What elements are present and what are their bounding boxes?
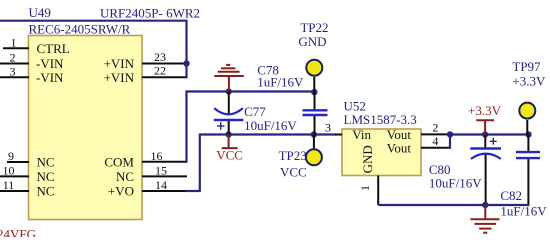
svg-text:1: 1 [11, 35, 17, 49]
svg-text:+VO: +VO [108, 184, 134, 199]
wire COM riser vertical [185, 91, 187, 163]
capacitor C82 leads [527, 135, 529, 152]
svg-text:URF2405P- 6WR2: URF2405P- 6WR2 [100, 6, 200, 21]
svg-text:GND: GND [360, 145, 375, 173]
svg-text:NC: NC [37, 169, 55, 184]
junction TP97 / C82 [525, 131, 531, 137]
svg-text:NC: NC [37, 184, 55, 199]
test point TP97 circle [519, 103, 535, 119]
svg-text:23: 23 [154, 50, 166, 64]
svg-text:-VIN: -VIN [36, 56, 64, 71]
svg-text:+3.3V: +3.3V [512, 74, 546, 89]
svg-text:REC6-2405SRW/R: REC6-2405SRW/R [29, 22, 131, 37]
svg-text:VCC: VCC [280, 165, 307, 180]
capacitor C77 straight plate [214, 119, 244, 121]
svg-text:C82: C82 [500, 188, 522, 203]
svg-text:Vin: Vin [352, 127, 371, 142]
svg-text:COM: COM [104, 154, 134, 169]
capacitor C82 bottom plate [516, 157, 540, 159]
svg-text:GND: GND [298, 34, 326, 49]
junction TP22 / C78 [311, 89, 317, 95]
wire +VO net vertical riser [199, 134, 201, 193]
U49 pin 22 line [142, 76, 187, 78]
junction C77 top [226, 88, 232, 94]
svg-text:15: 15 [155, 163, 167, 177]
junction U52 pin 2 [447, 131, 453, 137]
svg-text:LMS1587-3.3: LMS1587-3.3 [344, 112, 417, 127]
svg-text:+3.3V: +3.3V [468, 103, 502, 118]
capacitor C78 leads [314, 92, 316, 110]
svg-text:U49: U49 [29, 5, 51, 20]
wire GND bottom horizontal [378, 204, 529, 206]
U52 pin 2 line [421, 133, 450, 135]
U49 pin 14 line [142, 190, 187, 192]
wire +VO net bottom horizontal [186, 190, 201, 192]
svg-text:NC: NC [116, 169, 134, 184]
test point TP22 stub [313, 77, 315, 92]
capacitor C78 bottom plate [303, 114, 328, 116]
svg-text:VCC: VCC [216, 148, 243, 163]
capacitor C80 straight plate [470, 147, 501, 149]
svg-text:14: 14 [155, 178, 167, 192]
wire top +VIN net horizontal [0, 20, 188, 22]
U49 pin 16 line [142, 161, 187, 163]
wire pin4 to pin2 riser [449, 134, 451, 148]
U49 pin 1 line [3, 47, 29, 49]
ground symbol bottom right [470, 205, 499, 233]
U49 pin 10 line [0, 175, 29, 177]
wire +3.3V net horizontal [450, 133, 529, 135]
capacitor C80 plus sign [490, 138, 497, 145]
svg-text:2: 2 [432, 121, 438, 135]
test point TP22 circle [306, 60, 322, 76]
test point TP23 circle [306, 149, 322, 165]
svg-text:TP97: TP97 [512, 59, 541, 74]
svg-text:Vout: Vout [387, 140, 412, 155]
svg-text:11: 11 [3, 178, 15, 192]
test point TP97 stub [526, 120, 528, 135]
svg-text:22: 22 [154, 63, 166, 77]
capacitor C78 top plate [303, 109, 328, 111]
junction C77 bottom / VCC tap [225, 131, 231, 137]
svg-text:9: 9 [8, 149, 14, 163]
capacitor C77 leads [228, 92, 230, 115]
svg-text:10: 10 [3, 163, 15, 177]
svg-text:-VIN: -VIN [36, 70, 64, 85]
U52 pin 4 line [421, 147, 450, 149]
test point TP23 stub [313, 135, 315, 149]
svg-text:TP22: TP22 [300, 20, 328, 35]
U49 pin 2 line [0, 63, 29, 65]
svg-text:2: 2 [10, 51, 16, 65]
junction ground / C80 bottom [482, 202, 488, 208]
junction TP23 / C78 bottom [311, 131, 317, 137]
capacitor C80 leads [484, 135, 486, 149]
svg-text:C77: C77 [244, 104, 266, 119]
IC U49 body [29, 36, 143, 220]
svg-text:+VIN: +VIN [104, 56, 135, 71]
U49 pin 3 line [0, 76, 29, 78]
junction pin 23 [183, 60, 189, 66]
capacitor C77 curved plate [214, 108, 243, 114]
U49 pin 23 line [142, 63, 187, 65]
capacitor C77 plus sign [217, 122, 224, 129]
U49 pin 11 line [0, 190, 29, 192]
power symbol +3.3V bar [476, 120, 494, 134]
svg-text:24VFG: 24VFG [0, 226, 36, 237]
svg-text:10uF/16V: 10uF/16V [244, 118, 297, 133]
ground symbol (inverted) above GND wire [214, 65, 244, 92]
wire VCC net horizontal [200, 133, 336, 135]
U52 pin 3 stub [335, 134, 343, 136]
wire GND net horizontal (COM to TP22) [186, 90, 315, 92]
capacitor C80 curved plate [471, 154, 501, 159]
U52 pin 1 line (GND, vertical) [377, 176, 379, 206]
svg-text:1: 1 [358, 185, 372, 191]
svg-text:NC: NC [37, 155, 55, 170]
svg-text:+VIN: +VIN [104, 70, 135, 85]
svg-text:CTRL: CTRL [37, 41, 70, 56]
IC U52 body [342, 129, 421, 176]
svg-text:3: 3 [10, 64, 16, 78]
svg-text:TP23: TP23 [279, 148, 307, 163]
wire top +VIN net vertical riser [185, 21, 187, 79]
svg-text:16: 16 [151, 149, 163, 163]
capacitor C82 top plate [516, 151, 540, 153]
svg-text:1uF/16V: 1uF/16V [257, 75, 304, 90]
power symbol VCC bar [222, 135, 238, 149]
junction +3.3V bar / C80 [482, 131, 488, 137]
svg-text:10uF/16V: 10uF/16V [429, 175, 482, 190]
U49 pin 15 line [142, 175, 187, 177]
U49 pin 9 line [7, 161, 29, 163]
svg-text:3: 3 [325, 121, 331, 135]
svg-text:4: 4 [432, 134, 438, 148]
